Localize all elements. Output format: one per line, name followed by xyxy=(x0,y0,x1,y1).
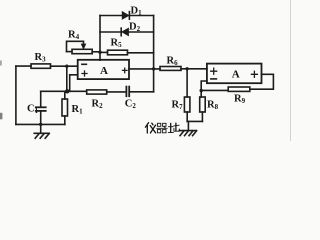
wire U2 minus stub xyxy=(201,81,207,91)
wire plus input L xyxy=(70,75,78,92)
wire R4 right to rail xyxy=(92,51,100,53)
resistor R3 body xyxy=(31,64,51,68)
capacitor C2 xyxy=(125,87,127,97)
node dot C1 bottom xyxy=(39,123,42,126)
wire bottom ground bus xyxy=(16,123,65,125)
scan artifact left edge marks xyxy=(0,61,2,66)
wire R3 input corner xyxy=(16,65,31,67)
wire R7 bottom xyxy=(186,112,188,121)
op-amp U2 minus sign xyxy=(211,78,217,80)
resistor R8 body xyxy=(200,97,206,112)
wire right rail xyxy=(153,16,155,92)
wire R8 top xyxy=(200,91,202,97)
resistor R1 xyxy=(64,91,66,99)
svg-text:A: A xyxy=(100,65,108,77)
wire R5 left stub xyxy=(100,51,108,53)
wire minus node vertical xyxy=(66,66,68,91)
wire R4 left stub xyxy=(67,51,73,53)
op-amp U2 plus sign xyxy=(211,68,217,74)
wire R3 to op-amp minus input xyxy=(51,65,78,67)
node dot rail output xyxy=(152,67,155,70)
glyph 器 xyxy=(157,123,160,126)
op-amp U2 output plus sign xyxy=(251,71,257,77)
resistor R6 body xyxy=(160,67,181,71)
scan artifact right edge line xyxy=(290,0,292,141)
node dot U2 minus xyxy=(200,89,203,92)
wire output1 to R6 xyxy=(129,68,160,70)
glyph 地 xyxy=(170,123,172,132)
wire U2 minus to R9 xyxy=(201,89,228,91)
node dot R7 top xyxy=(185,67,188,70)
op-amp U1 minus sign xyxy=(82,63,87,65)
wire R7 top xyxy=(186,69,188,97)
node dot feedback xyxy=(65,89,69,93)
wire R6 to amp2 xyxy=(181,68,207,70)
wire R5 right to rail xyxy=(128,52,154,54)
svg-text:A: A xyxy=(232,68,240,80)
resistor R7 body xyxy=(184,97,190,112)
glyph 仪 xyxy=(145,123,148,128)
text 仪器地 drawn as strokes xyxy=(145,123,179,133)
wire feedback node horizontal xyxy=(41,90,87,92)
wire R7R8 bottom link xyxy=(187,120,202,122)
node dot rail R4R5 xyxy=(98,51,101,54)
resistor R5 body xyxy=(108,50,128,55)
R4 wiper arrowhead xyxy=(81,44,85,49)
wire R4 wiper over-link xyxy=(67,41,84,51)
resistor R4 body xyxy=(72,49,92,53)
wire D2 branch right xyxy=(128,31,153,33)
node dot minus input xyxy=(65,65,68,68)
ground right xyxy=(187,121,189,130)
wire R8 bottom xyxy=(201,112,203,121)
diode D2 xyxy=(122,28,128,35)
resistor R2 xyxy=(87,90,107,94)
op-amp U1 plus sign xyxy=(82,71,87,76)
ground left xyxy=(40,124,42,133)
wire R2 to C2 xyxy=(107,91,126,93)
wire left rail xyxy=(99,16,101,61)
wire D2 branch left xyxy=(100,31,121,33)
wire C2 to rail xyxy=(130,91,154,93)
wire left rail down xyxy=(15,66,17,124)
wire R9 to output loop xyxy=(250,74,274,89)
resistor R9 body xyxy=(228,87,250,91)
wire D1 top branch right xyxy=(129,15,154,17)
wire D1 top branch left xyxy=(100,15,122,17)
op-amp U2 box xyxy=(207,64,262,84)
op-amp U1 output plus sign xyxy=(123,68,128,73)
capacitor C1 xyxy=(40,91,42,107)
op-amp U1 box xyxy=(78,60,129,79)
diode D1 xyxy=(122,12,128,19)
